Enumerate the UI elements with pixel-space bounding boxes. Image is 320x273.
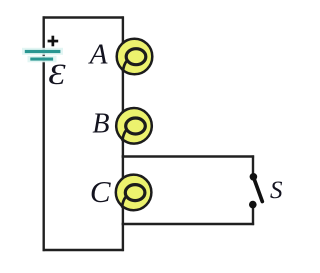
svg-text:Ɛ: Ɛ bbox=[48, 58, 66, 91]
bulb B bbox=[116, 108, 152, 144]
switch S: top contact dot bbox=[250, 173, 258, 181]
switch S: lever (open) bbox=[254, 178, 263, 202]
battery EMF source: halo bbox=[22, 48, 63, 63]
battery polarity + sign bbox=[48, 36, 59, 47]
battery plate: long (positive) bbox=[25, 50, 61, 53]
wire: bulb-line vertical bbox=[122, 16, 124, 251]
svg-text:C: C bbox=[90, 174, 111, 209]
battery plate: short (negative) bbox=[30, 58, 53, 61]
svg-text:A: A bbox=[88, 39, 108, 71]
switch S: bottom contact dot bbox=[249, 201, 257, 209]
wire: branch right vertical upper bbox=[252, 155, 254, 175]
wire: upper switch-branch horizontal bbox=[122, 155, 255, 157]
wire: bottom horizontal bbox=[43, 249, 124, 251]
svg-text:S: S bbox=[270, 177, 283, 204]
wire: branch right vertical lower bbox=[252, 206, 254, 225]
bulb C bbox=[116, 175, 152, 211]
bulb A bbox=[117, 39, 153, 75]
wire: left vertical bbox=[43, 16, 45, 251]
wire: top horizontal bbox=[43, 16, 124, 18]
svg-text:B: B bbox=[92, 109, 109, 140]
wire: lower switch-branch horizontal bbox=[122, 223, 255, 225]
